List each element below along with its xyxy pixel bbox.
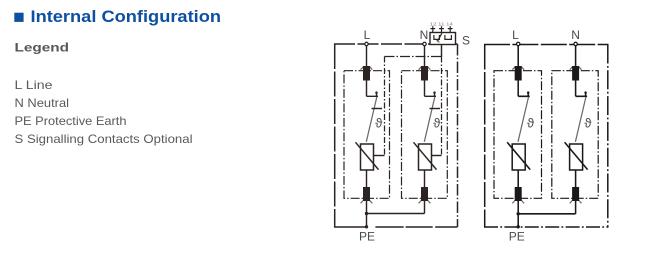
svg-text:ϑ: ϑ (527, 116, 535, 131)
wire S common drop (441, 45, 443, 57)
svg-text:12 11 14: 12 11 14 (430, 21, 454, 26)
module box N2 outline (552, 71, 598, 199)
wire N2 feed down (575, 46, 577, 66)
enclosure box SPD1 top edge (334, 43, 458, 45)
mechanical link T-bar N1 (430, 108, 441, 110)
wire N1 to switch (424, 81, 426, 97)
wire N2 to switch (575, 81, 577, 97)
mechanical link chain horizontal to S contact (385, 56, 442, 58)
svg-text:Legend: Legend (15, 41, 70, 55)
svg-text:L Line: L Line (15, 78, 53, 92)
disconnector (thermal fuse) N1 upper (419, 66, 431, 81)
svg-text:PE Protective Earth: PE Protective Earth (15, 114, 127, 128)
thermal disconnect switch N1 (424, 91, 436, 141)
junction dot common (365, 212, 368, 215)
junction dot PE terminal (365, 225, 368, 228)
enclosure box SPD1 left edge (334, 44, 336, 227)
mechanical link T-bar L1 (372, 108, 383, 110)
svg-text:N: N (420, 28, 429, 42)
module box L (plug-in module outline) (344, 71, 390, 199)
wire N1 feed down (424, 46, 426, 66)
thermal disconnect switch L1 (366, 91, 378, 141)
mechanical link chain vertical L branch (384, 57, 386, 156)
wire N1 varistor sense stub (431, 155, 442, 157)
svg-text:PE: PE (509, 229, 525, 243)
junction dot common (SPD2) (517, 212, 520, 215)
junction dot PE terminal (SPD2) (517, 225, 520, 228)
node L1 terminal (365, 42, 368, 45)
thermal disconnect switch L2 (518, 91, 530, 141)
wire L branch to PE (366, 201, 368, 227)
svg-text:Internal Configuration: Internal Configuration (31, 7, 222, 26)
enclosure box SPD1 bottom edge (solid to PE) (334, 226, 367, 228)
svg-text:N: N (571, 28, 580, 42)
disconnector L2 lower (512, 187, 524, 203)
varistor N2 (565, 142, 588, 170)
enclosure box SPD1 right edge (optional section, chain) (457, 44, 459, 227)
wire N2 varistor to lower disconnector (575, 170, 577, 187)
mechanical link chain vertical N branch (441, 57, 443, 156)
svg-text:ϑ: ϑ (433, 116, 441, 131)
svg-text:S: S (462, 33, 470, 47)
node N1 terminal (423, 42, 426, 45)
varistor N1 (414, 142, 437, 170)
disconnector N1 lower (419, 187, 431, 203)
svg-text:PE: PE (359, 229, 375, 243)
module box L2 outline (494, 71, 542, 199)
disconnector L1 lower (361, 187, 373, 203)
enclosure box SPD2 right edge chain (607, 45, 609, 228)
wire L1 to switch (366, 81, 368, 97)
enclosure box SPD2 top edge (484, 44, 609, 46)
pin terminals of S block with arrows (430, 26, 452, 32)
disconnector (thermal fuse) N2 upper (570, 66, 582, 81)
section title bullet (14, 13, 23, 22)
wire L2 varistor to lower disconnector (517, 170, 519, 187)
svg-text:ϑ: ϑ (584, 116, 592, 131)
disconnector (thermal fuse) L1 upper (361, 66, 373, 81)
wire common earth link (367, 213, 425, 215)
svg-text:ϑ: ϑ (375, 116, 383, 131)
wire L2 to switch (517, 81, 519, 97)
signalling contact block S (430, 33, 456, 45)
wire N branch down to common (424, 201, 426, 214)
disconnector (thermal fuse) L2 upper (512, 66, 524, 81)
wire N2 branch down to common (575, 201, 577, 214)
wire L2 feed down (517, 46, 519, 66)
varistor L2 (507, 142, 530, 170)
varistor L1 (356, 142, 379, 170)
enclosure box SPD1 bottom edge dashes (375, 226, 457, 228)
wire L1 varistor sense stub (373, 155, 385, 157)
module box N (plug-in module outline) (402, 71, 448, 199)
thermal disconnect switch N2 (575, 91, 587, 141)
svg-text:L: L (512, 28, 519, 42)
svg-text:N Neutral: N Neutral (15, 96, 70, 110)
svg-text:L: L (364, 28, 371, 42)
wire L2 branch to PE (517, 201, 519, 227)
enclosure box SPD2 bottom edge chain (484, 226, 609, 228)
wire L1 feed down (366, 46, 368, 66)
wire common earth link (SPD2) (518, 213, 575, 215)
disconnector N2 lower (570, 187, 582, 203)
wire L1 varistor to lower disconnector (366, 170, 368, 187)
svg-text:S Signalling Contacts Optional: S Signalling Contacts Optional (15, 132, 193, 146)
wire N1 varistor to lower disconnector (424, 170, 426, 187)
node N2 terminal (574, 42, 577, 45)
node L2 terminal (517, 42, 520, 45)
enclosure box SPD2 left edge (484, 45, 486, 228)
